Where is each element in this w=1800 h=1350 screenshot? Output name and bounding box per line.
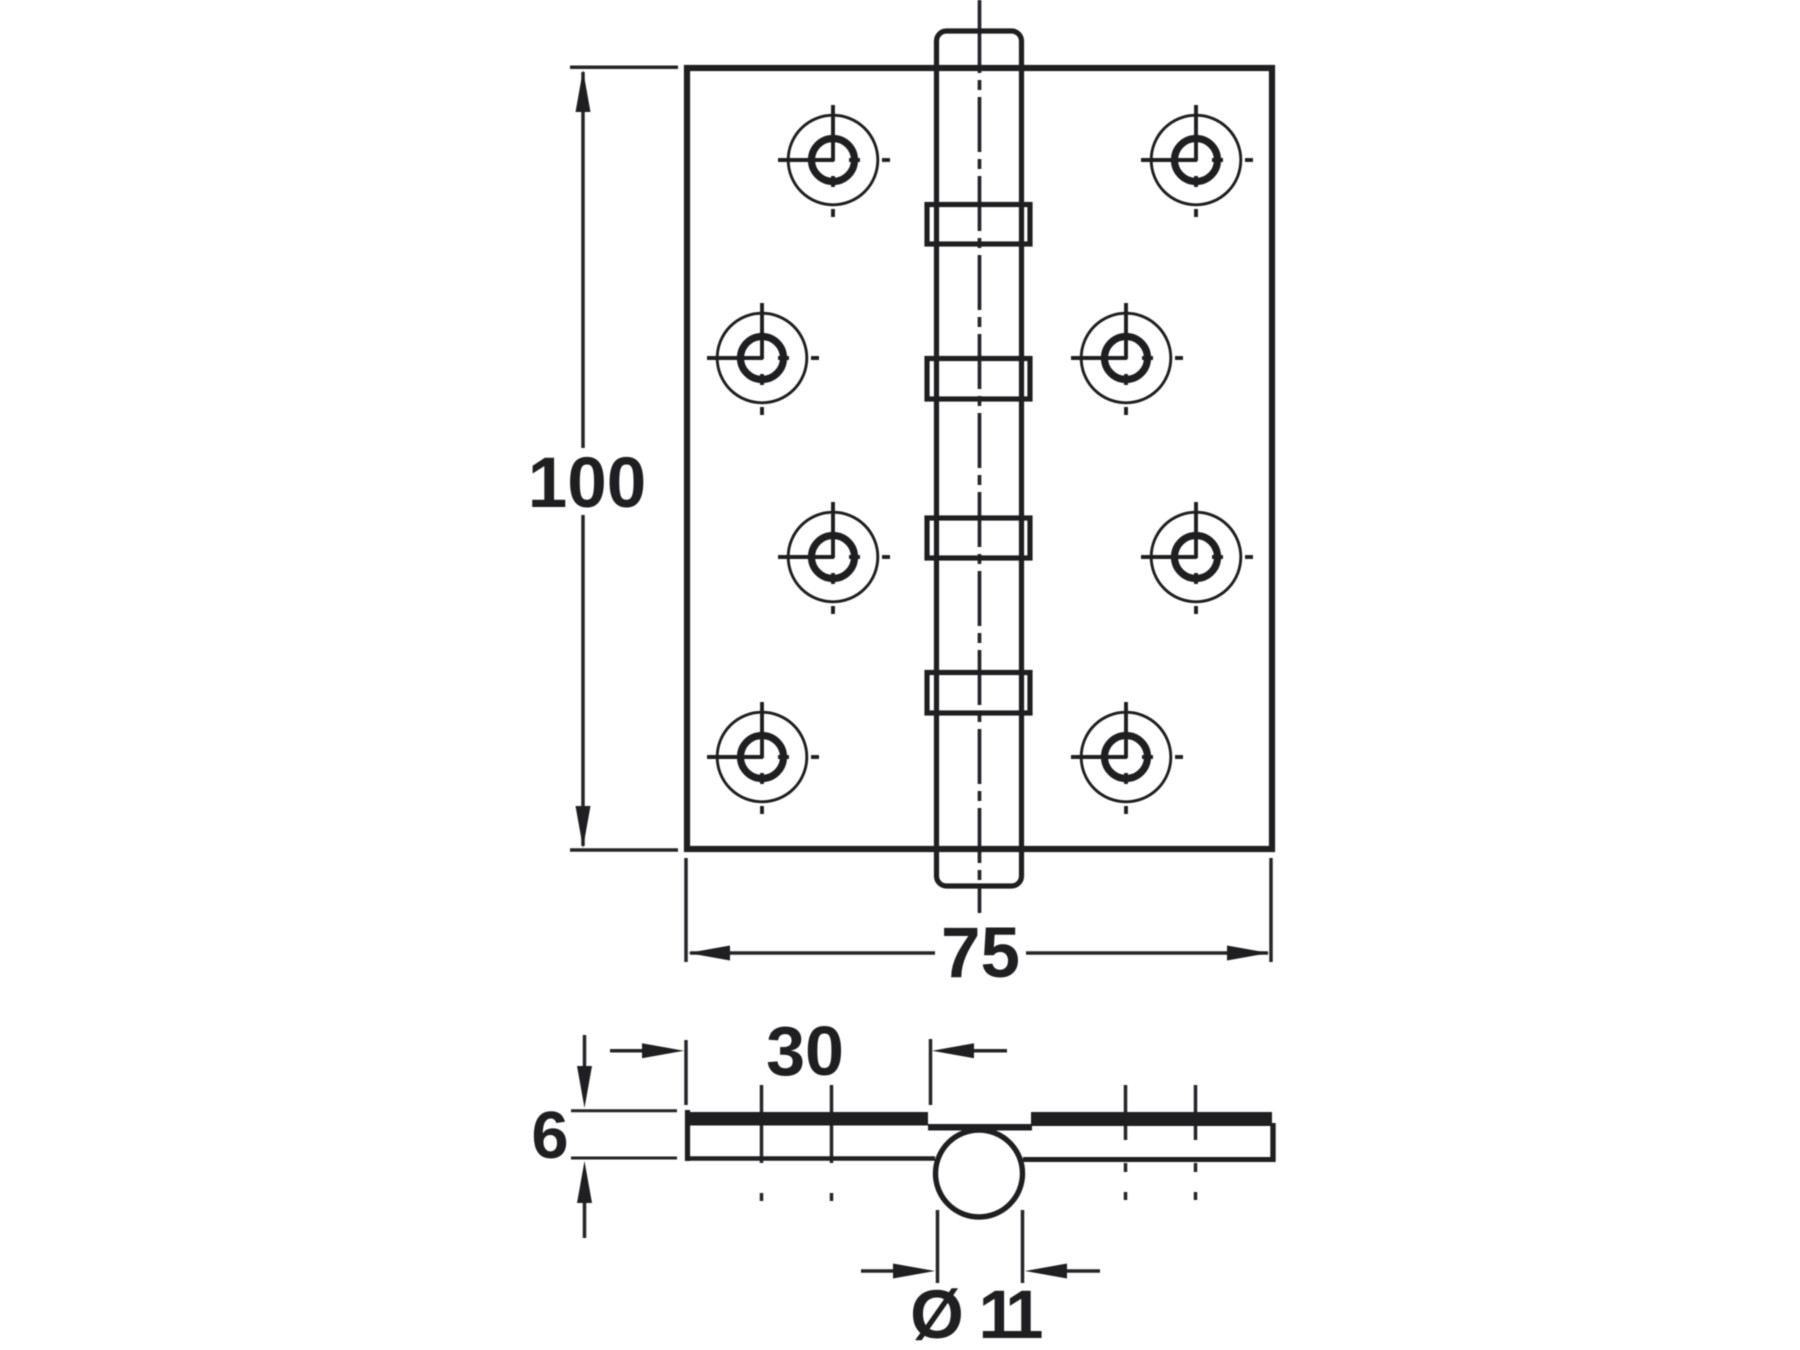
svg-text:11: 11 <box>979 1276 1043 1350</box>
screw hole 1 (row1 left) <box>778 105 890 217</box>
section view: knuckle step line <box>928 1124 1032 1131</box>
dimension 75: right extension line <box>1269 858 1273 962</box>
dimension 100: top extension line <box>570 66 678 70</box>
section view: left leaf (filled band) <box>687 1112 928 1126</box>
knuckle ring 2 <box>927 359 1030 400</box>
hinge pin barrel <box>937 31 1022 886</box>
svg-text:75: 75 <box>941 914 1020 993</box>
dimension D11: right arrow <box>1066 1269 1100 1273</box>
dimension D11: right extension line <box>1021 1210 1025 1283</box>
dimension D11: left arrow <box>861 1269 894 1273</box>
dimension 75: right arrow <box>1227 946 1269 961</box>
screw hole 6 (row3 right) <box>1141 502 1253 614</box>
hinge plate (front view) <box>687 68 1272 849</box>
svg-text:6: 6 <box>531 1098 568 1173</box>
dimension 30: right arrow <box>973 1049 1007 1053</box>
section view: screw centerline right column A <box>1124 1085 1128 1200</box>
dimension 30: right extension line <box>929 1039 933 1105</box>
section view: right leaf (filled band) <box>1031 1112 1272 1126</box>
dimension 6: top extension line <box>571 1109 677 1112</box>
dimension 75: left arrow <box>688 946 730 961</box>
dimension 100: bottom arrow <box>576 806 591 848</box>
svg-text:Ø: Ø <box>910 1276 964 1350</box>
dimension 6: top arrow <box>583 1035 587 1067</box>
svg-text:100: 100 <box>528 444 646 523</box>
knuckle ring 3 <box>927 518 1030 558</box>
dimension 30: left arrow <box>610 1049 643 1053</box>
dimension 100: top arrow <box>576 70 591 112</box>
dimension 100: bottom extension line <box>570 848 678 852</box>
svg-text:30: 30 <box>766 1012 844 1090</box>
section view: left leaf bottom line <box>685 1156 935 1161</box>
dimension 6: bottom arrow <box>583 1202 587 1238</box>
dimension 100: dimension line <box>581 72 585 846</box>
screw hole 2 (row1 right) <box>1141 105 1253 217</box>
section view: pin circle <box>936 1130 1023 1217</box>
screw hole 5 (row3 left) <box>778 502 890 614</box>
dimension 75: dimension line <box>690 951 1268 955</box>
section view: right leaf bottom line <box>1023 1157 1275 1162</box>
dimension 6: bottom extension line <box>571 1157 677 1160</box>
knuckle ring 1 <box>927 205 1030 245</box>
screw hole 7 (row4 left) <box>707 702 819 814</box>
section view: screw centerline left column A <box>760 1085 764 1201</box>
knuckle ring 4 <box>927 673 1030 714</box>
dimension 75: left extension line <box>684 858 688 962</box>
pin centerline (front view) <box>978 0 982 913</box>
screw hole 4 (row2 right) <box>1071 303 1183 415</box>
section view: right leaf right edge <box>1270 1123 1275 1162</box>
screw hole 3 (row2 left) <box>707 303 819 415</box>
section view: screw centerline right column B <box>1194 1085 1198 1200</box>
dimension D11: left extension line <box>936 1210 940 1283</box>
section view: screw centerline left column B <box>830 1085 834 1201</box>
dimension 30: left extension line <box>684 1040 688 1105</box>
section view: left leaf left edge <box>685 1110 690 1161</box>
screw hole 8 (row4 right) <box>1071 702 1183 814</box>
